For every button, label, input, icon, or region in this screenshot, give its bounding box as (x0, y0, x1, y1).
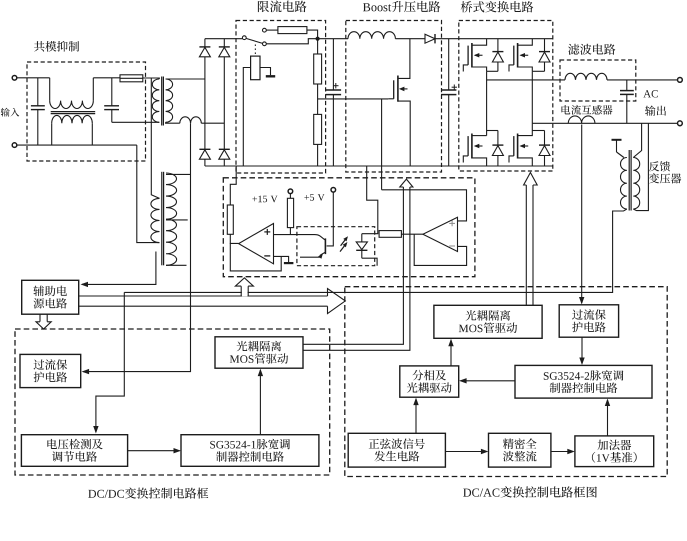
phototransistor Q6 (297, 235, 326, 259)
block 加法器1V基准 (575, 436, 654, 467)
op-amp U2 minus sign (264, 255, 270, 257)
wire LED anode to rail (362, 166, 378, 234)
diode D5 boost (425, 34, 435, 43)
wire U2 minus input (274, 256, 289, 262)
wire secondary sense to 过流保护 DC/DC arrow (82, 123, 191, 374)
inductor L3 filter (565, 73, 607, 80)
label 限流电路 (258, 0, 307, 12)
wire U2 feedback loop (230, 243, 281, 271)
resistor R1 bypass (278, 27, 307, 34)
wire boost top rail (318, 38, 348, 40)
wire 电压检测 to SG3524-1 arrow (128, 448, 181, 453)
wire +5V to phototransistor base (327, 192, 334, 246)
wire input bottom (17, 144, 137, 146)
wire SG3524-1 to 光耦MOS arrow (258, 369, 263, 435)
input terminal bottom (12, 143, 17, 148)
wire T2 secondary bottom lead (166, 264, 187, 266)
wire secondary top to rectifier (166, 78, 205, 80)
wire bridge output A (487, 79, 565, 81)
label 共模抑制 (34, 41, 79, 52)
label +5 V (304, 194, 324, 201)
wire secondary bottom with choke (166, 117, 225, 123)
op-amp U3 (423, 217, 458, 251)
hollow arrow aux to DC-AC frame (79, 289, 346, 314)
caption DC/DC变换控制电路框 (88, 488, 208, 499)
diode D6 (492, 39, 503, 72)
wire 分相及 to 光耦MOS arrow (448, 339, 453, 366)
transformer T1 primary winding (152, 79, 159, 122)
wire choke to fuse (93, 77, 120, 79)
wire filter to AC terminal (607, 79, 678, 81)
wire T4 secondary top to AC line (633, 123, 641, 157)
wire SG3524-2 to 分相及 arrow (459, 378, 515, 383)
block 精密全波整流 (489, 433, 551, 467)
wire bridge output B (532, 122, 677, 124)
wire U3 feedback upper (382, 190, 467, 221)
transformer T2 primary winding (151, 79, 160, 243)
wire C2 tap to transformer (112, 121, 160, 123)
current-limit block dashed box (236, 21, 326, 174)
wire top-left source junction (487, 71, 498, 135)
wire T2 secondary center tap (166, 219, 188, 221)
resistor R4 (227, 205, 233, 234)
wire gate node down (381, 99, 383, 190)
label +15 V (252, 196, 277, 203)
diode D2 (219, 47, 230, 57)
wire U2 plus input (274, 234, 297, 236)
AC output terminal bottom (678, 121, 683, 126)
wire input top (17, 77, 50, 79)
wire T4 secondary bottom to AC line (633, 123, 648, 210)
wire rail to comparator resistor (230, 166, 236, 205)
feedback transformer T4 secondary winding (633, 158, 639, 210)
diode D1 (199, 47, 210, 57)
ground symbol U2 (284, 262, 294, 264)
capacitor C2 (104, 78, 119, 123)
wire bottom-left drain junction (487, 130, 498, 132)
label 滤波电路 (568, 44, 615, 55)
power ground rail (205, 165, 553, 167)
diode D9 (539, 131, 550, 167)
wire 过流保护 to SG3524-2 arrow (579, 337, 584, 365)
LED D10 (356, 234, 367, 259)
op-amp U3 minus sign (449, 245, 455, 247)
wire resistor to junction (307, 30, 318, 39)
label 反馈变压器 (649, 161, 681, 183)
wire 加法器 to SG3524-2 arrow (605, 399, 610, 436)
wire bottom to aux primary (137, 145, 160, 243)
optocoupler light arrows (340, 236, 348, 251)
fuse F1 (120, 75, 143, 82)
capacitor C4 electrolytic (441, 39, 456, 166)
wire LED cathode lead (362, 258, 377, 266)
DC/AC control frame dashed box (345, 287, 667, 477)
feedback transformer T4 top bar (612, 140, 624, 158)
resistor R2 divider top (314, 39, 322, 84)
label Boost升压电路 (363, 1, 440, 12)
relay coil K1 (251, 56, 260, 80)
bridge converter block dashed box (459, 21, 553, 172)
current transformer T3 (568, 116, 595, 123)
label 电流互感器 (561, 105, 612, 115)
wire fuse to transformer (143, 78, 160, 79)
wire lower throw to junction (266, 39, 317, 44)
relay switch pole (242, 36, 246, 40)
transistor Q2 bridge top-left (463, 39, 486, 72)
common-mode suppression block dashed box (27, 62, 146, 161)
label 输入 (1, 108, 20, 117)
block 光耦隔离MOS管驱动 DC/DC (215, 337, 303, 368)
hollow arrow aux down (36, 314, 51, 329)
transistor Q4 bridge top-right (509, 39, 532, 72)
wire R4 to op-amp output (230, 234, 238, 243)
wire T4 primary bottom long feedback (124, 209, 627, 292)
wire U3 feedback lower (414, 234, 466, 265)
block 辅助电源电路 (22, 280, 79, 314)
wire aux supply feed (81, 252, 156, 288)
capacitor C3 electrolytic (326, 39, 341, 166)
common-mode choke core (51, 112, 95, 114)
AC output terminal top (678, 78, 683, 83)
block 过流保护电路 DC/AC (559, 305, 618, 337)
wire inductor to diode (395, 38, 425, 40)
hollow arrow up to comparator box (235, 278, 253, 297)
common-mode choke L1 top winding (50, 78, 94, 109)
junction node (316, 37, 320, 41)
block 电压检测及调节电路 (21, 435, 127, 467)
rectifier right rail (223, 39, 225, 166)
transformer T1 secondary winding (166, 79, 173, 122)
hollow arrow DC/DC gate drive (303, 179, 413, 350)
relay linkage dotted (254, 45, 256, 56)
capacitor C4 plus sign (452, 85, 457, 90)
wire T2 secondary top lead (166, 173, 191, 175)
ground symbol relay (266, 75, 275, 77)
inductor L2 boost (348, 32, 395, 39)
control/comparator section dashed box (223, 178, 475, 277)
resistor R6 (379, 231, 401, 238)
resistor R5 (287, 194, 293, 235)
wire diode to bridge (435, 38, 553, 40)
op-amp U2 comparator (239, 224, 274, 264)
boost converter block dashed box (346, 21, 442, 173)
transistor Q5 bridge bottom-right (509, 123, 532, 166)
block 过流保护电路 DC/DC (20, 354, 81, 387)
capacitor C3 plus sign (333, 83, 338, 88)
relay switch throw lower (263, 42, 267, 46)
rectifier left rail (204, 39, 206, 166)
wire bottom-right drain junction (532, 130, 544, 132)
wire feedback to 电压检测 arrow (93, 292, 124, 433)
input terminal top (12, 76, 17, 81)
supply +15V terminal (288, 189, 293, 194)
transistor Q3 bridge bottom-left (463, 134, 486, 167)
caption DC/AC变换控制电路框图 (463, 486, 597, 497)
wire coil left lead (243, 68, 250, 167)
wire 精密全波 to 加法器 arrow (551, 449, 575, 454)
DC/DC control frame dashed box (15, 329, 330, 475)
hollow arrow DC/AC gate drive (524, 173, 538, 306)
op-amp U2 plus sign (264, 229, 270, 235)
diode D7 (492, 131, 503, 167)
wire 正弦波 to 精密全波 arrow (445, 449, 488, 454)
relay switch arm (246, 38, 263, 43)
transformer T2 secondary winding (166, 173, 177, 265)
diode D8 (539, 39, 550, 72)
common-mode choke L1 bottom winding (52, 115, 93, 145)
capacitor C1 (31, 78, 45, 145)
wire R6 to op-amp U3 (401, 233, 423, 235)
wire top-right source junction (532, 71, 544, 123)
feedback transformer T4 core (629, 150, 631, 211)
diode D4 (219, 149, 230, 159)
label 桥式变换电路 (461, 1, 533, 12)
block 分相及光耦驱动 (400, 366, 459, 397)
optocoupler U1 dashed box (297, 227, 375, 266)
wire 正弦波 to 分相及 arrow (413, 398, 418, 434)
block 正弦波信号发生电路 (348, 433, 445, 467)
feedback transformer T4 primary winding (621, 158, 627, 210)
transistor Q1 boost MOSFET (388, 39, 410, 166)
filter block dashed box (560, 60, 636, 101)
supply +5V terminal (331, 188, 336, 193)
diode D3 (199, 149, 210, 159)
wire rectifier top rail (205, 38, 243, 40)
op-amp U3 plus sign (449, 221, 455, 227)
wire throw to resistor (266, 29, 278, 31)
label AC输出 (643, 90, 666, 116)
block SG3524-2脉宽调制器控制电路 (515, 365, 652, 398)
wire Q6 emitter lead (300, 256, 321, 258)
transformer T2 core (162, 172, 164, 265)
block 光耦隔离MOS管驱动 DC/AC (434, 305, 542, 338)
relay switch throw upper (263, 28, 267, 32)
wire divider tap to gate line (318, 98, 389, 100)
capacitor C5 filter (620, 80, 634, 123)
wire coil to ground (260, 68, 271, 76)
resistor R3 divider bottom (314, 84, 322, 166)
transformer T1 core (162, 77, 164, 126)
block SG3524-1脉宽调制器控制电路 (181, 435, 319, 467)
wire CT to 过流保护 DC/AC arrow (579, 125, 584, 305)
